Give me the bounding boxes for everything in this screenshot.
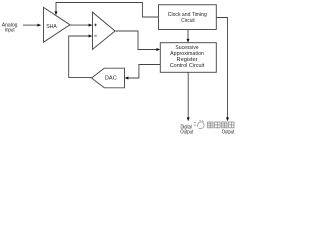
op-amp comparator [93, 12, 116, 49]
svg-text:Circuit: Circuit [181, 18, 195, 24]
block Clock and Timing Circuit [159, 5, 217, 30]
comparator plus sign [94, 24, 97, 27]
wire SAR to DAC [125, 65, 161, 80]
svg-text:Control Circuit: Control Circuit [170, 63, 205, 69]
wire clock feedback to SHA top [55, 3, 159, 18]
svg-text:Output: Output [180, 130, 193, 136]
svg-text:Input: Input [5, 27, 15, 33]
label Digital Output [180, 124, 193, 135]
watermark text [208, 122, 234, 128]
DAC block [92, 68, 125, 88]
comparator minus sign [94, 35, 97, 37]
svg-text:DAC: DAC [105, 75, 117, 81]
wire SHA output to comparator plus input [70, 24, 93, 27]
svg-text:Output: Output [222, 129, 235, 135]
wire DAC feedback to comparator minus input [69, 35, 93, 78]
watermark icon (gray) [194, 121, 204, 129]
wire clock to right output [216, 18, 229, 122]
svg-text:Clock and Timing: Clock and Timing [168, 12, 207, 18]
block Successive Approximation Register Control Circuit [160, 43, 216, 73]
op-amp SHA (sample and hold) [44, 7, 71, 42]
wire SAR to digital output [187, 72, 190, 121]
wire clock to SAR [187, 30, 190, 43]
wire analog input to SHA [23, 24, 41, 27]
svg-text:SHA: SHA [46, 24, 57, 30]
node Analog Input label [2, 22, 18, 33]
wire comparator output to SAR [115, 31, 160, 51]
